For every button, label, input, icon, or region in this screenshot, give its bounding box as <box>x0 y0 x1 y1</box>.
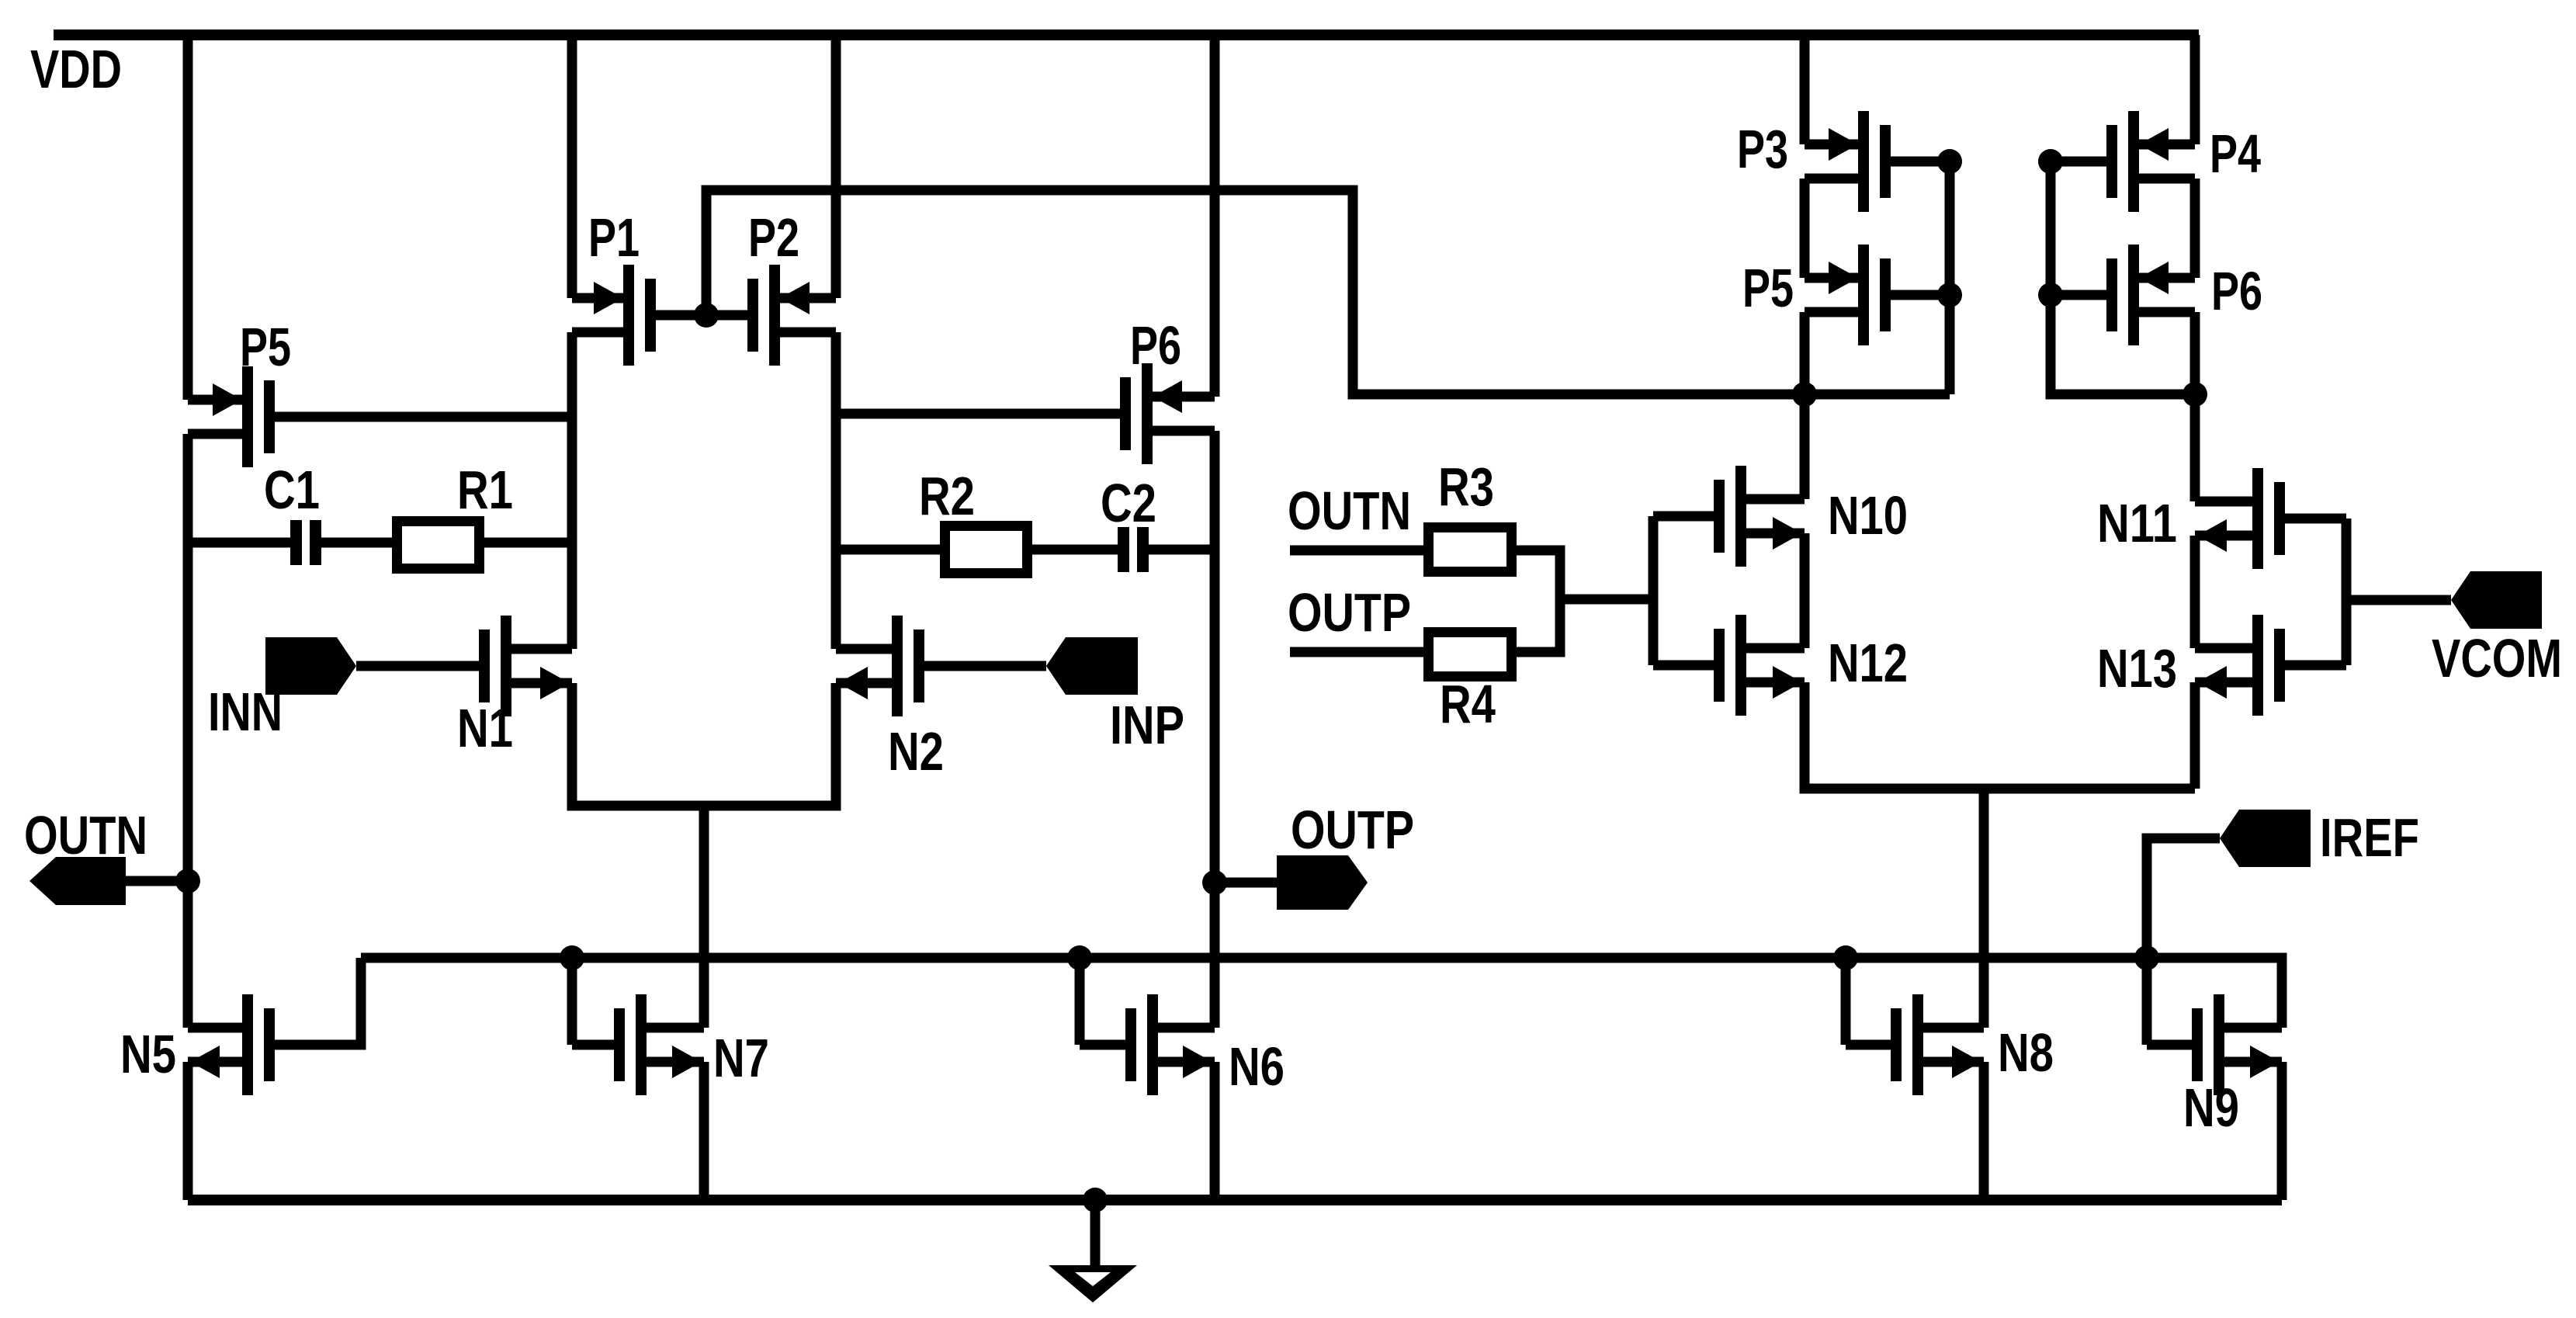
svg-text:P6: P6 <box>2211 261 2262 321</box>
transistor N2 <box>892 616 903 716</box>
capacitor C1 <box>290 520 302 565</box>
wire N12 source to N8 drain <box>1805 682 2195 789</box>
port OUTN <box>29 857 126 905</box>
port VCOM <box>2451 571 2542 629</box>
wire IREF to bias node <box>2147 838 2220 958</box>
node ground tap <box>1083 1188 1108 1212</box>
wire OUTP node to N6 drain <box>1210 883 1220 1028</box>
transistor N7 <box>636 994 647 1095</box>
svg-text:P2: P2 <box>748 207 799 268</box>
transistor N6 <box>1147 994 1158 1095</box>
wire P3 drain to P5 source <box>1800 179 1810 278</box>
resistor R1 <box>397 522 480 569</box>
node OUTP junction <box>1202 870 1227 895</box>
transistor N10 <box>1735 466 1746 567</box>
svg-text:P6: P6 <box>1130 315 1181 376</box>
svg-text:C1: C1 <box>264 460 320 520</box>
svg-text:P5: P5 <box>240 317 291 377</box>
node IREF bias <box>2134 945 2159 970</box>
svg-text:P4: P4 <box>2210 123 2261 184</box>
wire P4 P6 gate column <box>2051 161 2195 394</box>
svg-text:P1: P1 <box>588 207 640 268</box>
transistor N11 <box>2252 468 2263 569</box>
svg-text:N12: N12 <box>1828 633 1908 693</box>
wire N8 source to ground rail <box>1979 1062 1989 1200</box>
node P1 P2 gates <box>694 303 719 328</box>
wire VCOM lead <box>2346 595 2451 605</box>
port OUTP <box>1277 855 1368 910</box>
wire R4 to mid node <box>1517 599 1560 652</box>
wire N10 drain riser <box>1800 394 1810 499</box>
wire N11 source to N13 drain <box>2190 536 2200 648</box>
svg-text:INP: INP <box>1110 695 1184 755</box>
transistor N8 <box>1912 994 1923 1095</box>
svg-text:IREF: IREF <box>2320 807 2419 868</box>
wire P5 drain to bus node <box>1800 312 1810 394</box>
svg-text:N9: N9 <box>2183 1077 2239 1138</box>
svg-text:N8: N8 <box>1998 1022 2054 1083</box>
node P5 gate <box>1937 283 1962 307</box>
ground rail <box>188 1195 2282 1205</box>
wire N2 gate to INP <box>924 661 1046 671</box>
svg-text:N11: N11 <box>2097 493 2177 553</box>
svg-text:OUTP: OUTP <box>1288 582 1411 643</box>
wire P6 drain to bus node <box>2190 312 2200 394</box>
wire C1 to R1 <box>321 538 392 548</box>
wire OUTN port lead <box>126 876 188 886</box>
node N7 gate bias <box>560 945 584 970</box>
wire N6 gate tap <box>1075 958 1085 1045</box>
wire P5 drain to OUTN node <box>183 434 193 881</box>
capacitor C2 <box>1118 527 1129 572</box>
svg-text:N1: N1 <box>457 698 513 758</box>
resistor R2 <box>945 526 1028 574</box>
node N8 gate bias <box>1833 945 1858 970</box>
wire C2 to OUTP column <box>1149 545 1215 555</box>
svg-text:VCOM: VCOM <box>2432 628 2562 688</box>
svg-text:INN: INN <box>208 682 283 742</box>
transistor P1 <box>623 265 634 366</box>
transistor P6 <box>1142 363 1153 464</box>
transistor P5 mirror <box>1858 245 1869 345</box>
node P4 gate <box>2038 149 2063 174</box>
svg-text:VDD: VDD <box>30 39 122 99</box>
wire R2 to C2 <box>1032 545 1118 555</box>
svg-text:OUTN: OUTN <box>24 805 147 865</box>
svg-text:N6: N6 <box>1229 1036 1285 1097</box>
wire VDD to P3 source <box>1800 35 1810 144</box>
resistor R4 <box>1429 633 1512 677</box>
wire N1 source to tail <box>572 683 836 806</box>
svg-text:R3: R3 <box>1438 456 1494 517</box>
svg-text:OUTN: OUTN <box>1288 480 1411 541</box>
wire P3 P5 gate column <box>1945 161 1955 394</box>
wire P2 drain column to R2 <box>836 545 940 555</box>
wire N9 gate tap <box>2142 958 2152 1045</box>
wire N5 gate riser <box>275 958 361 1045</box>
svg-text:P3: P3 <box>1737 119 1788 179</box>
wire bias line <box>361 958 2282 1028</box>
wire VDD to P1 source <box>567 35 577 298</box>
svg-text:C2: C2 <box>1101 473 1156 533</box>
transistor N9 <box>2214 994 2224 1095</box>
wire R1 to P1 drain column <box>484 538 572 548</box>
svg-text:R2: R2 <box>919 466 975 526</box>
transistor N1 <box>501 616 511 716</box>
svg-text:P5: P5 <box>1742 258 1794 318</box>
wire N13 source down <box>2190 682 2200 789</box>
wire P4 drain to P6 source <box>2190 179 2200 278</box>
transistor P3 <box>1858 111 1869 212</box>
wire N8 drain riser <box>1979 789 1989 1028</box>
wire OUTP node lead <box>1215 878 1277 888</box>
node P3 gate <box>1937 149 1962 174</box>
wire VCOM riser <box>2342 519 2352 665</box>
wire P6 drain to OUTP node <box>1210 431 1220 883</box>
svg-text:OUTP: OUTP <box>1291 799 1414 860</box>
wire N10 N12 gate riser <box>1649 516 1659 665</box>
transistor P6 mirror <box>2128 245 2139 345</box>
wire N9 source to ground rail <box>2277 1062 2287 1200</box>
svg-text:N5: N5 <box>120 1024 176 1084</box>
wire R3 to mid node <box>1517 550 1653 599</box>
wire N7 gate tap <box>567 958 577 1045</box>
node N6 gate bias <box>1067 945 1092 970</box>
wire N6 source to ground rail <box>1210 1062 1220 1200</box>
wire gate bus to P3 mirror <box>706 190 1950 394</box>
port INP <box>1046 637 1138 695</box>
resistor R3 <box>1429 528 1512 572</box>
wire node to C1 <box>188 538 290 548</box>
svg-text:N2: N2 <box>888 721 944 782</box>
node P3 P5 drain bus <box>1792 382 1817 407</box>
wire N8 gate tap <box>1841 958 1851 1045</box>
transistor P4 <box>2128 111 2139 212</box>
wire OUTP stub to R4 <box>1290 647 1423 657</box>
transistor P5 <box>242 366 253 467</box>
transistor N5 <box>242 994 253 1095</box>
wire INN to N1 gate <box>356 661 479 671</box>
transistor N12 <box>1735 615 1746 716</box>
wire N10 source to N12 drain <box>1800 533 1810 648</box>
ground symbol <box>1090 1200 1101 1265</box>
svg-text:N13: N13 <box>2097 638 2177 699</box>
port IREF <box>2220 810 2311 867</box>
wire VDD to P5 source <box>183 35 193 400</box>
wire tail to N7 drain <box>699 806 709 1028</box>
svg-text:R1: R1 <box>457 460 513 520</box>
wire OUTN stub to R3 <box>1290 546 1423 556</box>
wire P2 drain to N2 drain <box>831 332 841 649</box>
wire VDD to P4 source <box>2190 35 2200 144</box>
wire P1 drain to N1 drain <box>567 332 577 649</box>
wire N5 source to ground rail <box>183 1062 193 1200</box>
transistor N13 <box>2252 615 2263 716</box>
wire bus node to N11 drain <box>2190 394 2200 501</box>
svg-text:N10: N10 <box>1828 485 1908 546</box>
wire VDD to P6 source <box>1210 35 1220 397</box>
node OUTN junction <box>175 869 200 893</box>
wire VDD to P2 source <box>831 35 841 298</box>
wire OUTN node to N5 drain <box>183 881 193 1028</box>
transistor P2 <box>769 265 780 366</box>
svg-text:N7: N7 <box>713 1028 769 1088</box>
node P6 drain bus <box>2182 382 2207 407</box>
wire N7 source to ground rail <box>699 1062 709 1200</box>
port INN <box>265 637 356 695</box>
VDD rail <box>54 29 2199 40</box>
svg-text:R4: R4 <box>1440 674 1496 734</box>
node P6 gate <box>2038 283 2063 307</box>
